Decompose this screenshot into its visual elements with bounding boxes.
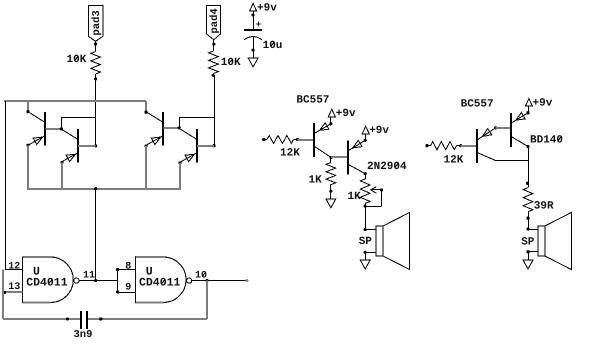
svg-text:CD4011: CD4011	[139, 277, 181, 290]
pad pad3	[88, 6, 103, 42]
svg-text:12K: 12K	[280, 148, 300, 160]
svg-text:+9v: +9v	[533, 98, 553, 110]
resistor R5 1K rheostat	[360, 172, 370, 208]
+9v supply top	[250, 2, 278, 14]
label Q5 BC557	[296, 94, 329, 106]
transistor Q2	[60, 127, 78, 164]
wire R1 to Q2 base node	[94, 79, 97, 148]
svg-text:SP: SP	[359, 236, 373, 248]
wire R6 to Q7 base	[461, 145, 478, 147]
svg-text:CD4011: CD4011	[26, 277, 68, 290]
wire Q3 base stub	[163, 127, 179, 129]
svg-text:39R: 39R	[534, 201, 554, 213]
ground below C1	[248, 58, 258, 67]
wire pin13 stub	[3, 291, 23, 294]
ground below SP2	[523, 260, 533, 269]
wire feedback bottom right	[101, 318, 207, 320]
svg-text:+9v: +9v	[369, 125, 389, 137]
label R4 1K	[309, 175, 323, 187]
transistor Q8 BD140	[511, 113, 528, 147]
wire pad3 to R1	[94, 41, 97, 47]
svg-text:BC557: BC557	[461, 99, 494, 111]
resistor R3 12K	[262, 136, 299, 144]
label R6 12K	[444, 155, 464, 167]
transistor Q3	[144, 111, 163, 148]
label R5 1K	[348, 191, 362, 203]
wire R5 to speaker SP1	[364, 206, 367, 231]
svg-text:+: +	[256, 20, 261, 30]
wire C1 to ground	[252, 37, 255, 58]
transistor Q1	[26, 110, 45, 147]
U1A pin 11 label	[83, 271, 95, 282]
svg-text:9: 9	[125, 283, 131, 294]
speaker SP2	[526, 213, 571, 270]
wire rail to gate1 output	[94, 188, 97, 282]
R5 wiper arrow	[371, 187, 383, 194]
label R1 10K	[67, 54, 87, 66]
wire left vertical to pin12	[5, 101, 7, 270]
resistor R2 10K	[209, 51, 219, 74]
svg-text:12: 12	[8, 261, 20, 272]
wire Q3 emitter riser	[145, 146, 147, 190]
transistor Q7 BC557	[477, 128, 496, 163]
U1A output bubble	[74, 278, 79, 283]
+9v supply at Q6	[362, 125, 389, 137]
U1A text CD4011	[26, 277, 68, 290]
wire Q1 collector riser	[27, 101, 29, 112]
U1B text U	[146, 266, 153, 279]
wire +9v to C1	[252, 11, 255, 29]
wire pin12 stub	[5, 269, 22, 271]
wire pad4 to R2	[212, 40, 215, 51]
wire Q5 emitter to +9v	[329, 117, 332, 126]
svg-text:+9v: +9v	[336, 108, 356, 120]
wire Q1 emitter riser	[27, 145, 29, 190]
ground below SP1	[360, 260, 370, 269]
svg-text:+9v: +9v	[257, 2, 277, 14]
svg-text:10K: 10K	[67, 54, 87, 66]
svg-text:1K: 1K	[309, 175, 323, 187]
wire bottom emitter rail	[28, 187, 180, 190]
wire Q3 collector riser	[145, 101, 147, 112]
ground below R4	[326, 199, 336, 208]
label R2 10K	[221, 57, 241, 69]
wire Q4 emitter riser	[179, 163, 181, 190]
wire feedback drop	[206, 281, 208, 319]
wire Q7 emitter to Q8 base	[494, 126, 511, 129]
svg-text:BC557: BC557	[296, 94, 329, 106]
wire U1A out to U1B in	[79, 280, 118, 282]
svg-text:10u: 10u	[263, 40, 283, 52]
wire Q2 base stub	[78, 145, 96, 147]
wire Q5 collector to Q6 base	[331, 156, 348, 158]
wire top rail	[4, 100, 146, 102]
U1B text CD4011	[139, 277, 181, 290]
wire Q1 base stub	[45, 128, 61, 130]
NAND gate U1B CD4011 body	[135, 256, 186, 303]
wire Q5 collector node	[329, 156, 332, 159]
R1 leads and dots	[94, 48, 97, 81]
wire Q2 emitter riser	[61, 162, 63, 190]
transistor Q6 2N2904	[348, 140, 366, 174]
svg-text:1K: 1K	[348, 191, 362, 203]
resistor R7 39R	[523, 188, 533, 220]
wire Q1 base to pad3 net	[61, 117, 95, 129]
wire feedback bottom left	[3, 318, 81, 320]
U1B output bubble	[187, 278, 192, 283]
label C2 3n9	[74, 329, 93, 341]
R2 leads and dots	[212, 74, 215, 77]
+9v supply at Q8	[525, 98, 552, 110]
U1A pin 12 label	[8, 261, 20, 272]
wire Q6 emitter to +9v	[364, 134, 367, 142]
label Q6 2N2904	[367, 161, 407, 173]
U1B pin 8 label	[125, 261, 131, 272]
wire Q3 base to pad4 net	[179, 117, 214, 127]
svg-text:SP: SP	[521, 237, 535, 249]
resistor R1 10K	[91, 52, 101, 75]
wire SP1 to ground	[365, 252, 367, 260]
wire U1B output	[192, 279, 249, 282]
wire Q4 base stub	[197, 145, 214, 147]
transistor Q5 BC557	[314, 123, 331, 158]
wire Q8 emitter to +9v	[526, 106, 529, 114]
pad pad4	[206, 6, 221, 40]
svg-text:pad4: pad4	[209, 8, 221, 33]
svg-text:3n9: 3n9	[74, 329, 93, 341]
capacitor C1 10u plus plate	[244, 20, 262, 30]
capacitor C1 curved plate	[244, 37, 262, 40]
NAND gate U1A CD4011 body	[22, 256, 73, 303]
U1A pin 13 label	[8, 282, 20, 293]
label R3 12K	[280, 148, 300, 160]
U1A text U	[33, 266, 40, 279]
wire SP2 to ground	[528, 252, 530, 260]
resistor R6 12K	[425, 142, 462, 150]
label SP2	[521, 237, 535, 249]
resistor R4 1K	[326, 157, 336, 198]
svg-text:2N2904: 2N2904	[367, 161, 407, 173]
label R7 39R	[534, 201, 554, 213]
wire R7 to speaker SP2	[526, 218, 529, 231]
capacitor C2 3n9	[66, 311, 102, 329]
U1B pin 9 label	[125, 283, 131, 294]
svg-text:10K: 10K	[221, 57, 241, 69]
wire left feedback vertical	[2, 270, 4, 319]
speaker SP1	[364, 213, 410, 270]
label SP1	[359, 236, 373, 248]
svg-text:pad3: pad3	[91, 10, 103, 35]
wire R2 to Q4 base node	[212, 75, 215, 147]
wire R3 to Q5 base	[297, 139, 314, 141]
svg-text:8: 8	[125, 261, 131, 272]
transistor Q4	[178, 126, 198, 164]
label C1 10u	[263, 40, 283, 52]
svg-text:11: 11	[83, 271, 95, 282]
label Q7 BC557	[461, 99, 494, 111]
wire U1B input tie	[116, 268, 135, 294]
wire Q7 collector run	[495, 160, 528, 162]
wire R5 wiper to bottom	[365, 190, 381, 207]
wire Q8 collector to R7	[526, 145, 530, 188]
U1B pin 10 label	[195, 271, 207, 282]
svg-text:12K: 12K	[444, 155, 464, 167]
+9v supply at Q5	[328, 108, 356, 120]
label Q8 BD140	[530, 134, 563, 146]
